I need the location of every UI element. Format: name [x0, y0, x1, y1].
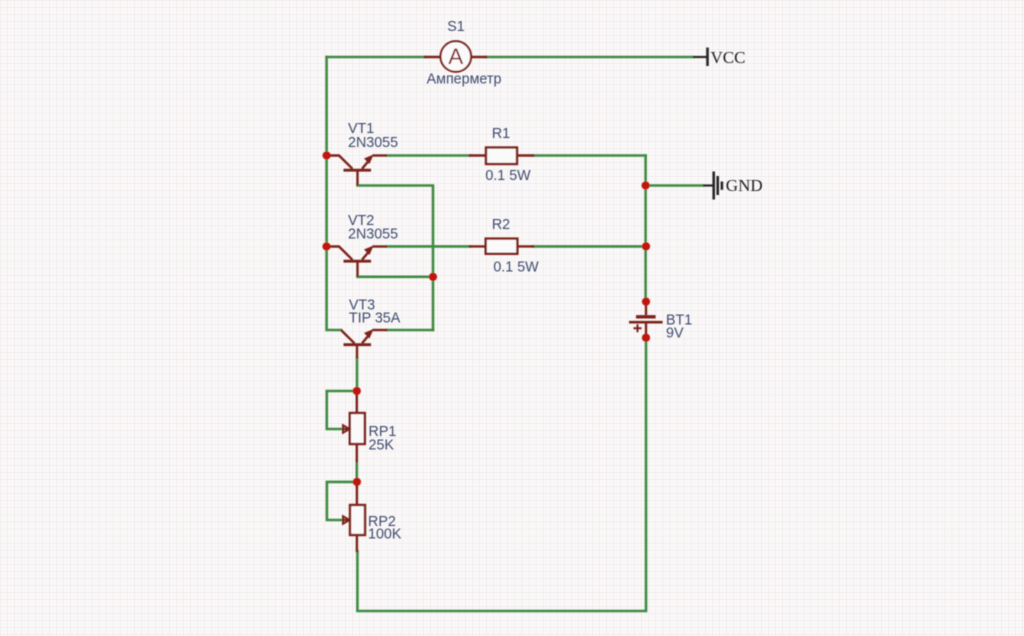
- svg-text:A: A: [448, 44, 463, 69]
- svg-text:R1: R1: [492, 126, 510, 142]
- svg-text:R2: R2: [492, 217, 510, 233]
- svg-text:2N3055: 2N3055: [348, 135, 398, 151]
- svg-text:0.1 5W: 0.1 5W: [493, 260, 539, 276]
- svg-text:VCC: VCC: [711, 48, 746, 67]
- svg-text:25K: 25K: [369, 438, 395, 454]
- svg-text:2N3055: 2N3055: [348, 227, 398, 243]
- svg-text:Амперметр: Амперметр: [427, 71, 502, 87]
- svg-text:GND: GND: [726, 176, 763, 195]
- svg-text:0.1 5W: 0.1 5W: [485, 168, 531, 184]
- svg-text:S1: S1: [447, 19, 465, 35]
- svg-text:TIP 35A: TIP 35A: [349, 311, 401, 327]
- svg-text:100K: 100K: [368, 526, 402, 542]
- svg-text:9V: 9V: [666, 326, 684, 342]
